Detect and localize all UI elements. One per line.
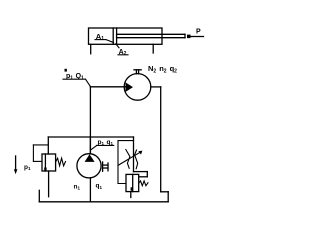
svg-text:N2n2q2: N2n2q2 xyxy=(148,64,177,74)
svg-text:P: P xyxy=(196,29,201,36)
